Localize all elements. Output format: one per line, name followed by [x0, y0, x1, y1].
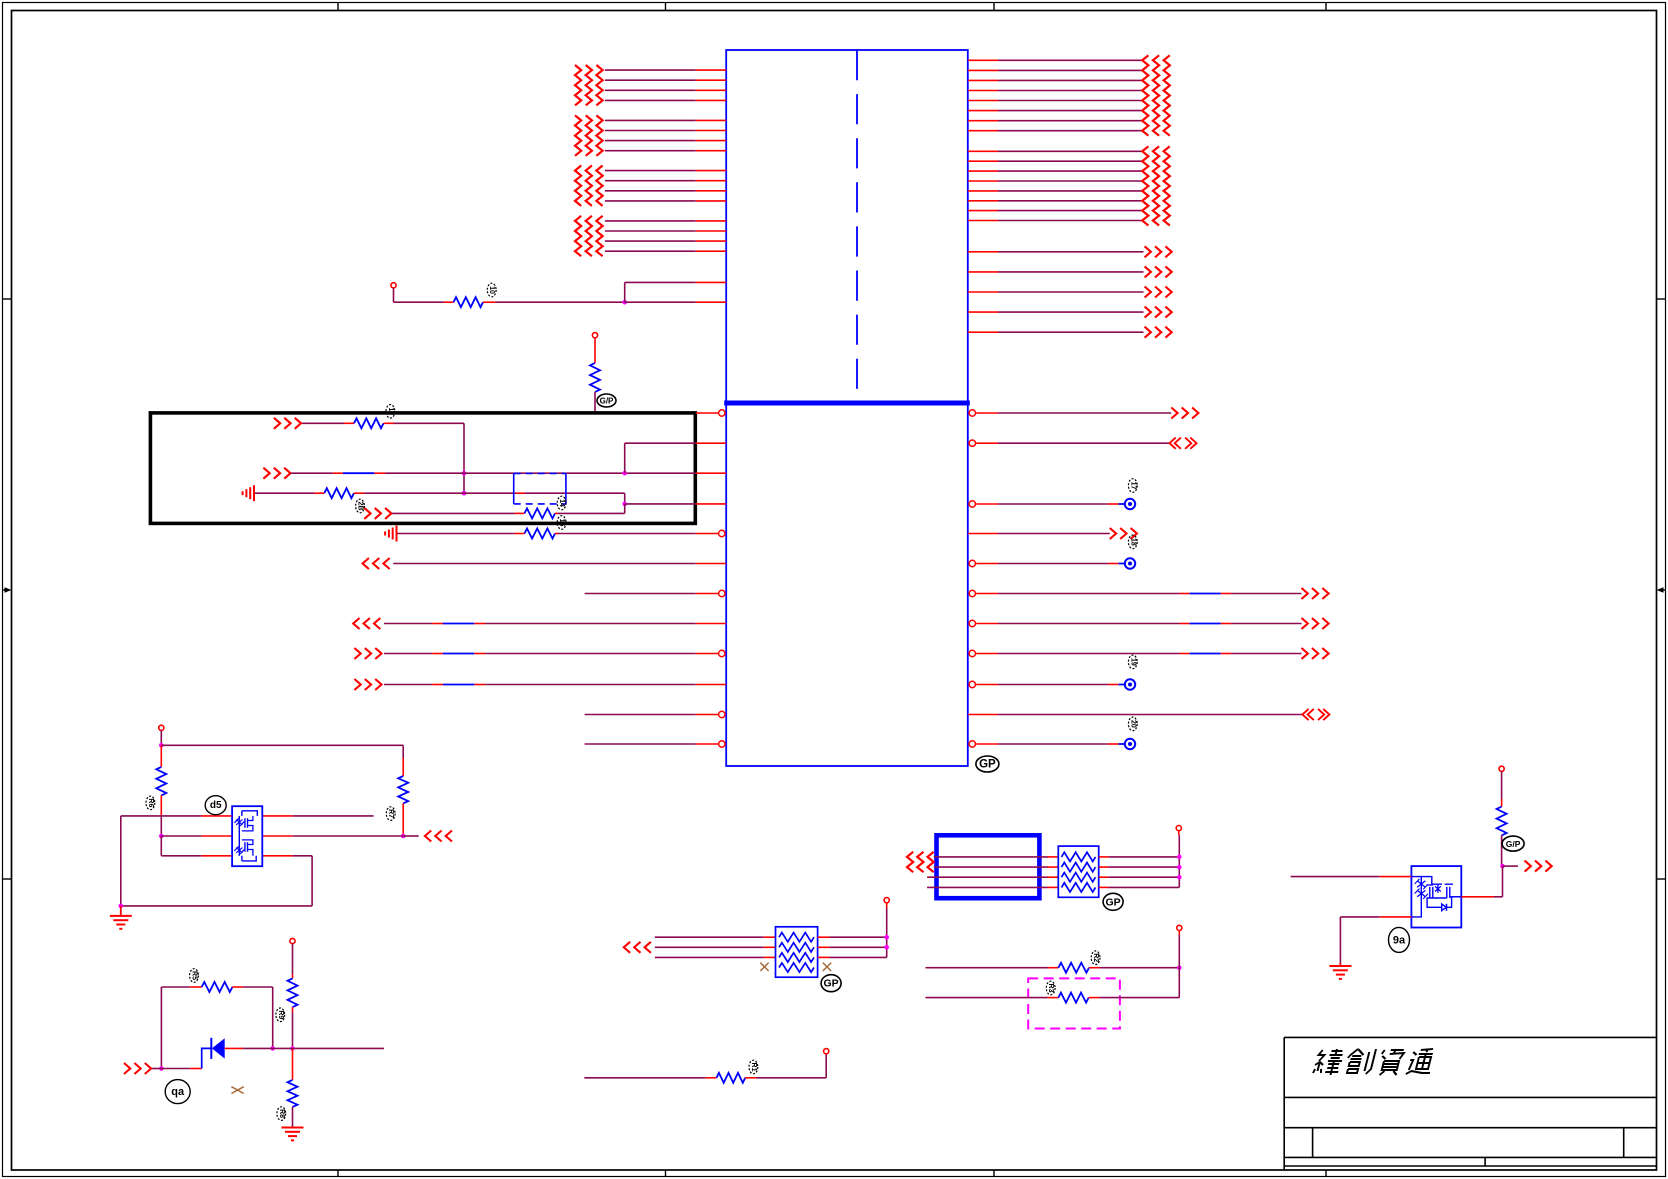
svg-text:R1: R1 — [750, 1063, 757, 1072]
svg-text:13: 13 — [387, 407, 394, 415]
svg-text:R7: R7 — [387, 809, 394, 818]
svg-text:18: 18 — [1129, 538, 1136, 546]
svg-text:2B: 2B — [357, 502, 364, 511]
svg-text:20: 20 — [1129, 720, 1136, 728]
svg-text:GP: GP — [979, 759, 996, 771]
svg-text:G/P: G/P — [1506, 839, 1521, 849]
svg-text:15: 15 — [558, 519, 565, 527]
svg-text:R3: R3 — [1047, 984, 1054, 993]
svg-text:qa: qa — [171, 1086, 185, 1098]
svg-text:GP: GP — [1106, 896, 1121, 908]
svg-text:R9: R9 — [277, 1010, 284, 1019]
svg-text:19: 19 — [1129, 658, 1136, 666]
svg-text:17: 17 — [1129, 482, 1136, 490]
svg-text:R6: R6 — [147, 798, 154, 807]
svg-text:R2: R2 — [1092, 953, 1099, 962]
svg-text:14: 14 — [558, 499, 565, 507]
svg-text:R8: R8 — [278, 1109, 285, 1118]
svg-text:9a: 9a — [1393, 934, 1406, 946]
svg-text:GP: GP — [824, 978, 839, 990]
svg-text:10: 10 — [488, 286, 495, 294]
svg-text:R5: R5 — [191, 971, 198, 980]
svg-text:d5: d5 — [210, 800, 222, 811]
svg-text:G/P: G/P — [600, 397, 614, 406]
